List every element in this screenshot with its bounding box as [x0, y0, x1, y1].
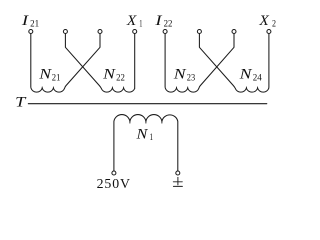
svg-text:250V: 250V [97, 176, 131, 190]
svg-text:21: 21 [30, 19, 39, 29]
svg-text:24: 24 [253, 72, 263, 82]
svg-text:I: I [154, 13, 163, 29]
svg-text:22: 22 [164, 19, 173, 29]
svg-text:N: N [135, 127, 149, 143]
svg-text:1: 1 [150, 132, 154, 142]
svg-text:X: X [126, 13, 138, 29]
svg-text:2: 2 [272, 19, 276, 29]
svg-text:22: 22 [116, 72, 125, 82]
svg-text:T: T [15, 95, 27, 111]
svg-text:1: 1 [139, 19, 142, 29]
svg-text:N: N [38, 67, 53, 83]
svg-text:N: N [173, 67, 188, 83]
svg-text:N: N [238, 67, 253, 83]
svg-text:23: 23 [187, 72, 196, 82]
svg-text:I: I [21, 13, 30, 29]
svg-text:21: 21 [52, 72, 61, 82]
svg-text:X: X [258, 13, 270, 29]
svg-text:N: N [102, 67, 117, 83]
